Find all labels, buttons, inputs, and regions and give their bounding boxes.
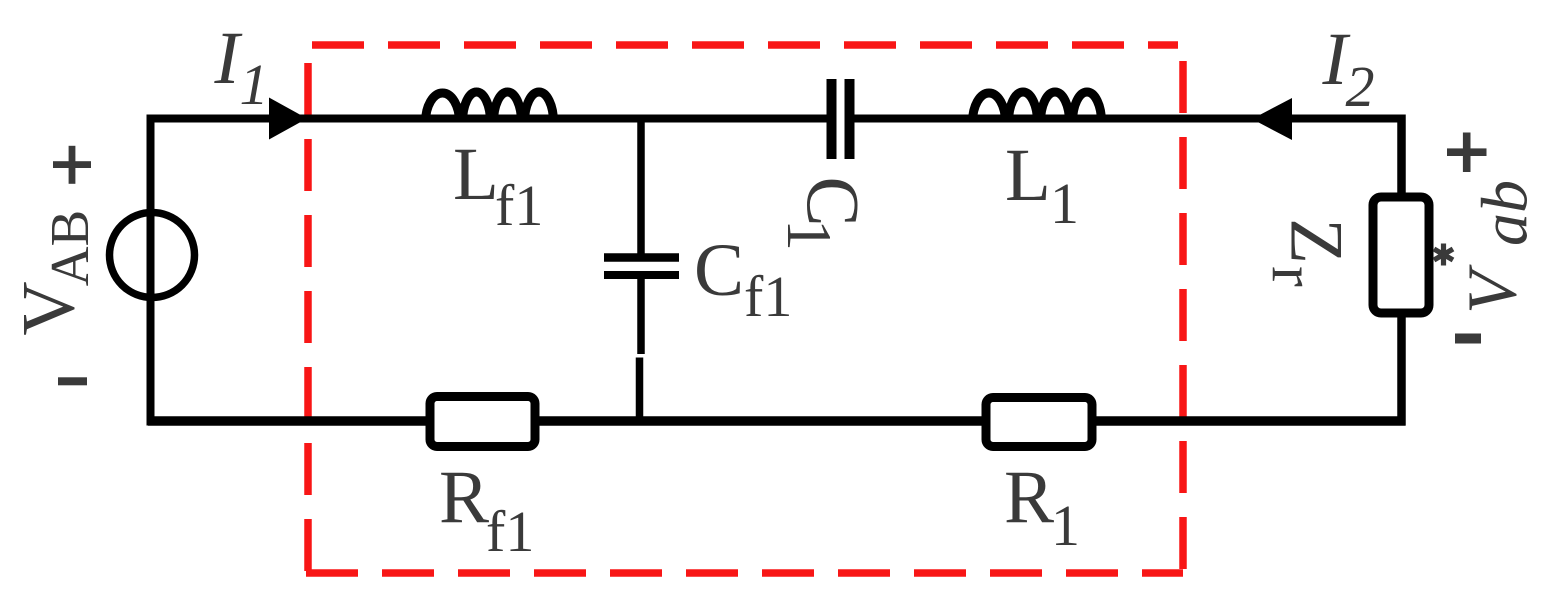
wire: left vertical (source branch) bbox=[147, 115, 155, 426]
svg-text:1: 1 bbox=[1050, 171, 1079, 236]
label + (left source) bbox=[53, 161, 91, 168]
dashed box right edge bbox=[1179, 61, 1187, 573]
wire: right vertical lower (Zr to bottom rail) bbox=[1397, 308, 1406, 426]
svg-text:2: 2 bbox=[1346, 54, 1375, 119]
impedance Zr body bbox=[1373, 197, 1429, 313]
label - (left source) bbox=[58, 377, 87, 385]
inductor L1 (4 humps) bbox=[973, 92, 1102, 122]
node: junction of bottom rail and Cf1 branch bbox=[636, 417, 644, 426]
svg-text:R: R bbox=[1004, 456, 1054, 539]
wire: Cf1 branch upper segment bbox=[637, 118, 645, 254]
svg-text:R: R bbox=[439, 456, 489, 539]
label - (right load) bbox=[1455, 334, 1481, 344]
svg-text:1: 1 bbox=[774, 219, 845, 251]
svg-text:ab: ab bbox=[1469, 180, 1542, 246]
current arrow I1 (pointing right) bbox=[269, 98, 307, 140]
wire: top rail left of C1 bbox=[148, 115, 827, 123]
wire: Cf1 branch lower segment to bottom rail bbox=[636, 358, 644, 422]
svg-text:V: V bbox=[8, 281, 91, 335]
current arrow I2 (pointing left) bbox=[1252, 98, 1292, 140]
wire: Cf1 branch middle segment below plates bbox=[637, 279, 645, 354]
svg-text:r: r bbox=[1259, 266, 1327, 287]
capacitor Cf1 plates (horizontal) bbox=[604, 253, 679, 262]
label + (right load) bbox=[1447, 148, 1487, 156]
svg-text:f1: f1 bbox=[744, 264, 792, 329]
AC source VAB circle bbox=[110, 213, 195, 298]
svg-text:1: 1 bbox=[1051, 493, 1080, 558]
svg-text:f1: f1 bbox=[495, 173, 543, 238]
wire: right vertical upper (to Zr) bbox=[1397, 115, 1406, 203]
wire: top rail right of C1 bbox=[855, 115, 1406, 123]
dashed compensation-network box (red) : top edge bbox=[312, 41, 1178, 49]
resistor Rf1 body bbox=[430, 397, 535, 447]
inductor Lf1 (4 humps) bbox=[426, 92, 554, 122]
label Vab asterisk superscript bbox=[1434, 244, 1453, 266]
dashed box bottom edge bbox=[306, 569, 1183, 577]
svg-text:Z: Z bbox=[1275, 218, 1358, 264]
resistor R1 body bbox=[986, 398, 1092, 447]
node: junction of top rail and Cf1 branch bbox=[637, 115, 645, 123]
svg-text:I: I bbox=[214, 17, 243, 100]
svg-text:f1: f1 bbox=[486, 499, 534, 564]
svg-text:1: 1 bbox=[240, 52, 269, 117]
svg-text:L: L bbox=[453, 133, 499, 216]
wire: bottom rail bbox=[148, 416, 1406, 426]
svg-text:C: C bbox=[694, 229, 744, 312]
dashed box left edge bbox=[304, 63, 312, 573]
svg-text:L: L bbox=[1005, 134, 1051, 217]
capacitor C1 plates (vertical) bbox=[827, 79, 837, 159]
svg-text:V: V bbox=[1455, 264, 1532, 314]
svg-text:AB: AB bbox=[39, 210, 100, 286]
